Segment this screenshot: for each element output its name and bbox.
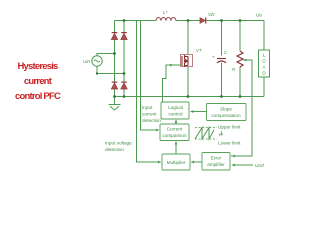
block: Current comparison	[160, 124, 189, 141]
load box	[259, 50, 270, 77]
svg-text:Input voltage: Input voltage	[105, 141, 132, 146]
svg-text:VT: VT	[196, 48, 202, 53]
svg-text:+: +	[212, 55, 215, 60]
diode VD (horizontal, boost diode)	[200, 18, 206, 24]
title: Hysteresis current control PFC	[0, 59, 75, 104]
svg-text:O: O	[262, 59, 266, 64]
wire: AC bottom terminal to right leg	[97, 66, 124, 73]
lower limit dashed line	[195, 138, 217, 140]
svg-text:compensation: compensation	[211, 113, 241, 118]
wire: MOSFET drain from rail	[187, 21, 189, 55]
svg-text:Current: Current	[167, 127, 183, 132]
load branch wires	[263, 21, 265, 97]
wire: multiplier to current comparison	[175, 142, 177, 154]
diode D2 (bridge top-right)	[121, 33, 127, 40]
ground	[109, 97, 121, 111]
AC source Uin	[92, 56, 102, 66]
svg-text:comparison: comparison	[162, 133, 187, 138]
block: Multiplier	[162, 154, 190, 170]
svg-text:Lower limit: Lower limit	[218, 141, 241, 146]
svg-text:Multiplier: Multiplier	[167, 160, 186, 165]
wire: resistor branch bottom	[239, 67, 241, 97]
svg-text:Uref: Uref	[255, 163, 265, 168]
bridge right leg wire x=124	[123, 21, 125, 97]
wire: slope compensation to logical control	[191, 111, 206, 113]
svg-text:Uo: Uo	[256, 13, 262, 18]
svg-text:Upper limit: Upper limit	[218, 125, 241, 130]
hysteresis sawtooth waveform	[195, 128, 214, 140]
wire: capacitor branch bottom	[221, 63, 223, 97]
svg-text:detection: detection	[142, 118, 161, 123]
transistor VT (MOSFET)	[181, 55, 193, 68]
wire: Uref input to error amplifier	[232, 164, 253, 166]
diode D3 (bridge bottom-left)	[111, 82, 117, 89]
block: Slope compensation	[207, 104, 247, 121]
wire: bottom rail	[115, 96, 265, 98]
svg-text:Error: Error	[211, 156, 222, 161]
svg-text:Logical: Logical	[168, 105, 183, 110]
wire: AC top terminal to left leg	[97, 54, 115, 56]
svg-text:current: current	[142, 112, 157, 117]
wire: resistor branch top	[239, 21, 241, 52]
inductor L*	[156, 17, 176, 20]
svg-text:D: D	[262, 71, 266, 76]
block: Logical control	[161, 102, 189, 119]
svg-text:amplifier: amplifier	[207, 162, 225, 167]
upper limit dashed line	[195, 127, 217, 129]
svg-text:control: control	[168, 112, 182, 117]
resistor R (output divider, zigzag)	[237, 51, 243, 67]
svg-text:C: C	[224, 50, 228, 55]
svg-text:L: L	[263, 53, 266, 58]
svg-text:Input: Input	[142, 105, 153, 110]
block: Error amplifier	[202, 153, 230, 171]
wire: gate drive from logical control to MOSFET gate	[163, 65, 182, 102]
svg-text:R: R	[232, 67, 236, 72]
wire: feedback tap from divider to error amplifier	[231, 60, 252, 156]
wire: capacitor branch top	[221, 21, 223, 56]
wire: MOSFET source to bottom rail	[187, 67, 189, 97]
wire: top rail from bridge to load corner	[115, 20, 265, 22]
svg-text:detection: detection	[105, 147, 124, 152]
svg-text:Slope: Slope	[220, 107, 232, 112]
junction dots	[96, 19, 242, 98]
diode D4 (bridge bottom-right)	[121, 82, 127, 89]
svg-text:VD: VD	[208, 12, 215, 17]
wire: error amplifier to multiplier	[192, 161, 202, 163]
bridge left leg wire x=114.5	[114, 21, 116, 97]
svg-text:L*: L*	[163, 10, 168, 15]
svg-text:A: A	[262, 65, 265, 70]
svg-text:Uin: Uin	[83, 59, 90, 64]
wire: current comparison to logical control	[175, 120, 177, 124]
wire: current sense line to multiplier (input voltage detection)	[137, 21, 161, 163]
wire: current sense line to current comparison (input current detection)	[141, 21, 159, 131]
capacitor C (polarized)	[217, 59, 226, 63]
diode D1 (bridge top-left)	[111, 33, 117, 40]
